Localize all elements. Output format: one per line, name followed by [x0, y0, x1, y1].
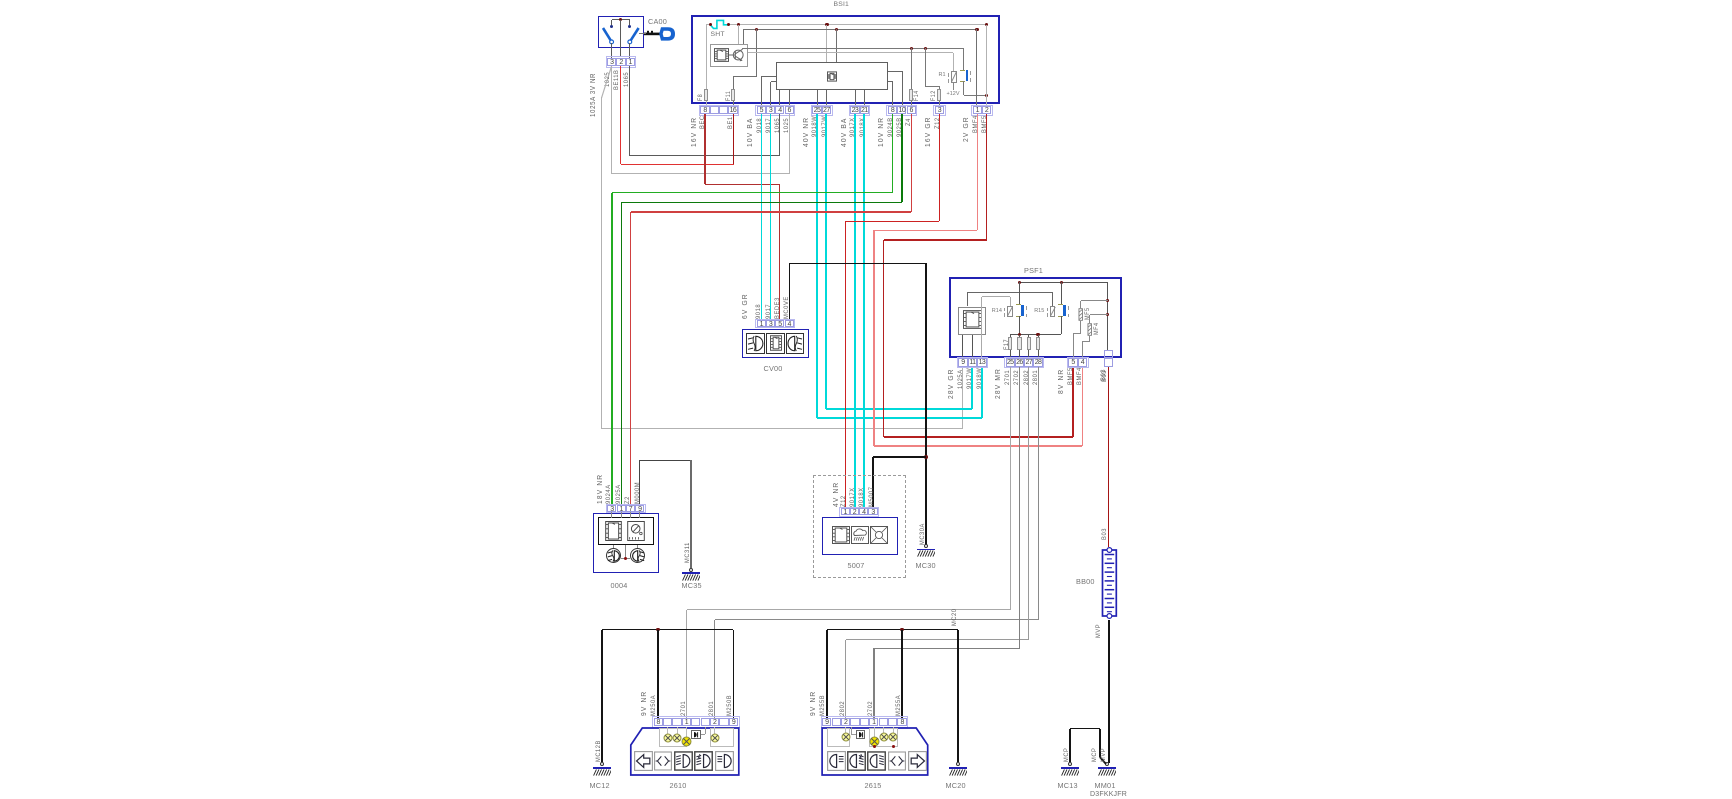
battery BB00 — [1101, 546, 1118, 622]
rain light sensor 5007 dashed box — [813, 475, 906, 578]
labels 28V GR group — [946, 368, 955, 399]
ground MM01 — [1105, 762, 1109, 766]
labels CV00 — [740, 293, 749, 319]
wire MC20 — [957, 630, 959, 763]
labels 2V GR group — [961, 117, 970, 143]
wire bus1 right drop to pin2 — [986, 25, 987, 106]
wires rect bottom to pins — [779, 90, 780, 106]
wire M250A — [657, 630, 659, 718]
sun symbol 5007 — [870, 526, 888, 544]
wire Z4 to Z2 — [911, 114, 912, 212]
PSF1 box — [949, 277, 1123, 358]
wire MC12B — [601, 630, 603, 763]
relay box 2610 — [691, 730, 701, 738]
wire bus2 drop to rect — [836, 29, 837, 62]
wire Z12 — [939, 114, 940, 221]
wire BMF4 — [977, 114, 978, 230]
labels 0004 — [595, 473, 604, 503]
relay R1 contact — [963, 48, 964, 70]
2615 internal boxes — [827, 728, 851, 747]
wire rect left pin3 — [771, 81, 776, 82]
wires CA00 box to pins — [611, 43, 612, 58]
wire 9018W — [816, 114, 818, 418]
lamp cluster 2615 outline — [820, 726, 932, 777]
icon fog beam 2615 — [867, 751, 886, 771]
labels 16V NR group — [689, 117, 698, 147]
label 1065 — [623, 72, 630, 87]
wire CA00 internal top — [612, 19, 630, 20]
wire 1025A — [599, 65, 613, 99]
wire 2801 — [1038, 367, 1039, 620]
key icon — [644, 24, 677, 44]
fusible link MF5 — [1081, 300, 1108, 301]
wire to F14 — [911, 48, 912, 106]
wire 2802 — [1028, 367, 1029, 640]
wire MVP — [1108, 620, 1110, 764]
labels 10V BA group — [745, 118, 754, 148]
wire M255B — [826, 630, 828, 718]
wire fuse bus — [1010, 334, 1062, 335]
fog lamp unit CV00 — [742, 329, 809, 358]
wire PSF1 right feed — [1107, 282, 1108, 349]
connector 10V BA pins — [755, 105, 795, 116]
wire B03 — [1108, 367, 1110, 547]
pin B03 box — [1104, 350, 1114, 359]
icon position lamps 2615 — [888, 751, 906, 771]
BSI1 box — [691, 15, 1000, 104]
wire 9025B — [901, 114, 903, 202]
wire 2701 — [1010, 367, 1011, 610]
wire 9018 — [761, 114, 762, 319]
wire transistor collector line — [742, 48, 964, 49]
rain symbol 5007 — [851, 526, 869, 544]
connector 8V NR pins — [1067, 357, 1089, 368]
2610 bulb wires — [667, 727, 668, 734]
wire pin11 to IC — [972, 335, 973, 359]
icon low beam leveling — [694, 751, 713, 771]
IC symbol 0004 — [605, 521, 622, 541]
switch SHT — [708, 17, 732, 31]
fuse F11 — [731, 89, 735, 101]
contact dots — [610, 25, 613, 28]
connector pins CA00 — [606, 56, 637, 67]
connector 28V GR pins — [957, 357, 989, 368]
icon tail lamp 2615 — [827, 751, 846, 771]
fuse F14 — [909, 89, 913, 101]
icon turn signal left — [634, 751, 653, 771]
junction CA00 center — [619, 18, 623, 22]
labels 2610 — [639, 691, 648, 716]
ignition switch CA00 — [598, 16, 644, 49]
ground MC35 — [689, 568, 693, 572]
connector 16V NR pins — [699, 105, 739, 116]
wire MC0VE — [789, 263, 791, 320]
bulb 5 — [841, 732, 851, 742]
connector 16V GR pins — [933, 105, 946, 116]
IC symbol 5007 — [832, 526, 850, 544]
wire M250B — [733, 630, 735, 718]
junction dots bus2 — [755, 28, 758, 31]
fog lamp unit 0004 — [593, 513, 659, 573]
wire bus3 emitter line — [748, 52, 954, 53]
connector 2V GR pins — [971, 105, 993, 116]
icon tail lamp — [715, 751, 734, 771]
switch blade right — [626, 26, 644, 45]
wire bus2 — [743, 29, 977, 30]
wires 0004 pins to box — [611, 512, 612, 518]
wire rect right pin8 — [888, 81, 893, 82]
wire rect left pin5 — [761, 76, 776, 77]
bulb 4 — [710, 733, 720, 743]
labels 5007 — [831, 482, 840, 507]
bulb 3 — [681, 736, 692, 747]
wire MCP — [1069, 729, 1071, 763]
fuses F17 group — [1010, 335, 1011, 359]
icon low beam leveling 2615 — [847, 751, 866, 771]
wire bus1 — [706, 24, 710, 25]
label BE11B — [613, 69, 620, 90]
connector 40V NR pins — [811, 105, 833, 116]
labels 40V BA group — [839, 118, 848, 148]
wire IC to R15 coil — [967, 292, 968, 306]
IC symbol center — [827, 71, 837, 82]
connector 2615 pins — [821, 716, 909, 727]
wire BEC to BEDE3 — [704, 114, 705, 184]
ground MC12 — [600, 762, 604, 766]
wire pin9 to IC — [962, 335, 963, 359]
wire 9018X — [863, 114, 865, 508]
bulb 6 — [869, 736, 880, 747]
icon turn signal right — [908, 751, 927, 771]
junction dots bus1 — [709, 23, 712, 26]
wire 1065 — [629, 66, 630, 156]
IC symbol U1 — [714, 48, 729, 62]
labels 10V NR group — [876, 117, 885, 147]
bulb 2 — [672, 733, 682, 743]
ground MC20 — [956, 762, 960, 766]
wire BE11B — [620, 66, 621, 164]
labels 8V NR group — [1056, 368, 1065, 393]
wire M255A — [901, 630, 903, 718]
fuse F8 — [706, 89, 707, 106]
switch blade left — [598, 26, 616, 45]
lamp right 0004 — [630, 548, 646, 564]
wire bus1 drop to sub-box — [738, 25, 739, 44]
wire bus1 drop to rect — [826, 25, 827, 63]
relay R15 bracket dashes — [1046, 308, 1049, 312]
label B03 top — [1100, 369, 1107, 381]
ground MC30 — [924, 544, 928, 548]
labels 28V MR group — [993, 368, 1002, 399]
wire 9017 — [770, 114, 771, 319]
wire F11 feed — [756, 29, 757, 76]
connector 0004 pins — [606, 504, 646, 514]
labels 40V NR group — [801, 117, 810, 147]
wire MC311 — [690, 460, 692, 568]
sensor unit 5007 — [822, 517, 898, 555]
relay box 2615 — [856, 730, 866, 738]
wire rect right pin10 — [888, 71, 902, 72]
transistor Q1 — [729, 45, 751, 65]
fuse F12 — [937, 89, 941, 101]
2610 internal boxes — [659, 728, 688, 747]
wire MC30A vertical — [925, 263, 927, 545]
relay R14 bracket dashes — [1003, 308, 1006, 312]
wire 9017X — [854, 114, 856, 508]
wire BMF5 — [986, 114, 987, 240]
connector CV00 pins — [755, 319, 795, 329]
lamp cluster 2610 outline — [629, 726, 741, 777]
labels 2615 — [808, 691, 817, 716]
junction dots collector line — [910, 47, 913, 50]
ground MC13 — [1068, 762, 1072, 766]
relay R1 coil — [951, 71, 957, 82]
wire bus2 right drop to pin1 — [976, 29, 977, 105]
icon position lamps — [654, 751, 672, 771]
wire key link — [639, 32, 647, 35]
connector 40V BA pins — [849, 105, 871, 116]
lamp left 0004 — [606, 548, 622, 564]
bulb 7 — [879, 732, 889, 742]
icon fog beam — [674, 751, 693, 771]
connector 28V MR pins — [1004, 357, 1044, 368]
bulb 1 — [663, 733, 673, 743]
wire pin13 to R14 coil — [981, 297, 982, 359]
wires 0004 lamps — [613, 545, 614, 547]
relay R1 bracket dashes — [947, 73, 950, 77]
label 1025A 3V NR — [590, 73, 597, 117]
bulb 8 — [888, 732, 898, 742]
junction dots 2615 — [873, 745, 876, 748]
connector 10V NR pins — [886, 105, 917, 116]
2615 bulb wires — [845, 727, 846, 733]
IC symbol PSF1 — [958, 307, 986, 335]
wire M5007 — [872, 457, 874, 509]
wire to F12 — [925, 48, 926, 86]
wire 2702 — [1019, 367, 1020, 648]
connector 2610 pins — [652, 716, 740, 727]
control unit sub-box — [710, 44, 748, 67]
wire BE1 — [733, 114, 734, 164]
wire M000M — [639, 460, 640, 505]
wire 9017W — [825, 114, 827, 408]
main rectangle — [776, 62, 888, 90]
gauge symbol 0004 — [627, 521, 645, 541]
fusible link MF4 — [1090, 314, 1108, 315]
connector 5007 pins — [839, 507, 879, 517]
relay R14 — [1007, 306, 1013, 317]
wire PSF1 top bus — [1019, 282, 1107, 283]
wire 9024B — [892, 114, 894, 192]
wire 1025 — [611, 66, 612, 174]
labels 16V GR group — [923, 117, 932, 148]
relay R15 — [1050, 306, 1056, 317]
label 1025 — [604, 72, 611, 87]
